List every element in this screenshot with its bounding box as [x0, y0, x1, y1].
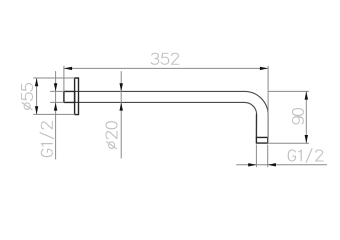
- node labelD20: [106, 122, 117, 149]
- node label90: [292, 109, 303, 124]
- node arrowsG12B: [248, 163, 256, 166]
- wire: [245, 102, 257, 137]
- wire: [268, 142, 308, 144]
- wire: [268, 90, 308, 92]
- wire: [51, 91, 64, 102]
- node arrowsG12L: [54, 83, 57, 91]
- wire: [256, 145, 267, 167]
- wire: [63, 66, 65, 91]
- wire: [305, 91, 307, 143]
- wire: [36, 78, 38, 114]
- wire: [55, 72, 57, 160]
- node arrows55: [35, 78, 38, 86]
- node labelG12B: [288, 149, 323, 163]
- wire: [237, 164, 327, 166]
- node labelD55: [22, 84, 33, 110]
- node label352: [151, 53, 179, 64]
- wire: [245, 91, 269, 137]
- node labelG12L: [40, 122, 54, 157]
- node arrows90: [305, 91, 308, 99]
- wire: [75, 90, 245, 92]
- node A: [75, 78, 79, 115]
- node C: [256, 137, 267, 143]
- wire: [34, 113, 75, 115]
- node arrows352: [64, 67, 72, 70]
- wire: [64, 67, 268, 69]
- wire: [75, 101, 245, 103]
- node arrows20: [120, 83, 123, 91]
- wire: [120, 72, 122, 159]
- wire: [255, 115, 257, 138]
- node B: [64, 91, 75, 102]
- wire: [267, 66, 269, 143]
- wire: [34, 77, 75, 79]
